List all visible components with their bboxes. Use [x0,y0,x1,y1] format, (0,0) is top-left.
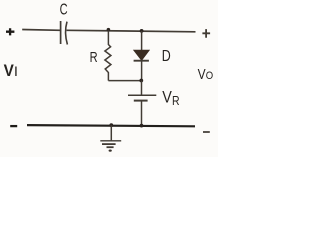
svg-text:V: V [198,67,206,83]
node junction diode top [140,29,144,33]
node - (input negative terminal) [10,125,17,127]
node junction battery top [139,79,143,83]
battery VR [128,81,156,127]
node - (output negative terminal) [203,131,210,133]
svg-text:R: R [172,94,180,108]
svg-text:D: D [162,48,171,65]
node junction ground [109,123,113,127]
capacitor C1 [61,21,68,45]
diode D1 [134,31,149,81]
svg-text:O: O [206,70,214,82]
svg-text:V: V [4,61,15,80]
wire top-left from + to capacitor [22,29,60,32]
wire top-right from capacitor to output [67,30,196,32]
resistor R1 [105,31,111,81]
ground [100,126,121,148]
node + (output positive terminal) [202,29,210,38]
node junction resistor top [107,28,111,32]
wire bottom rail [27,125,195,126]
svg-text:C: C [60,1,68,18]
svg-text:R: R [90,50,98,66]
svg-text:I: I [15,63,18,79]
node + (input positive terminal) [6,28,14,35]
svg-text:V: V [162,88,172,106]
wire resistor bottom to node [108,80,141,82]
node junction battery bottom [140,124,144,128]
